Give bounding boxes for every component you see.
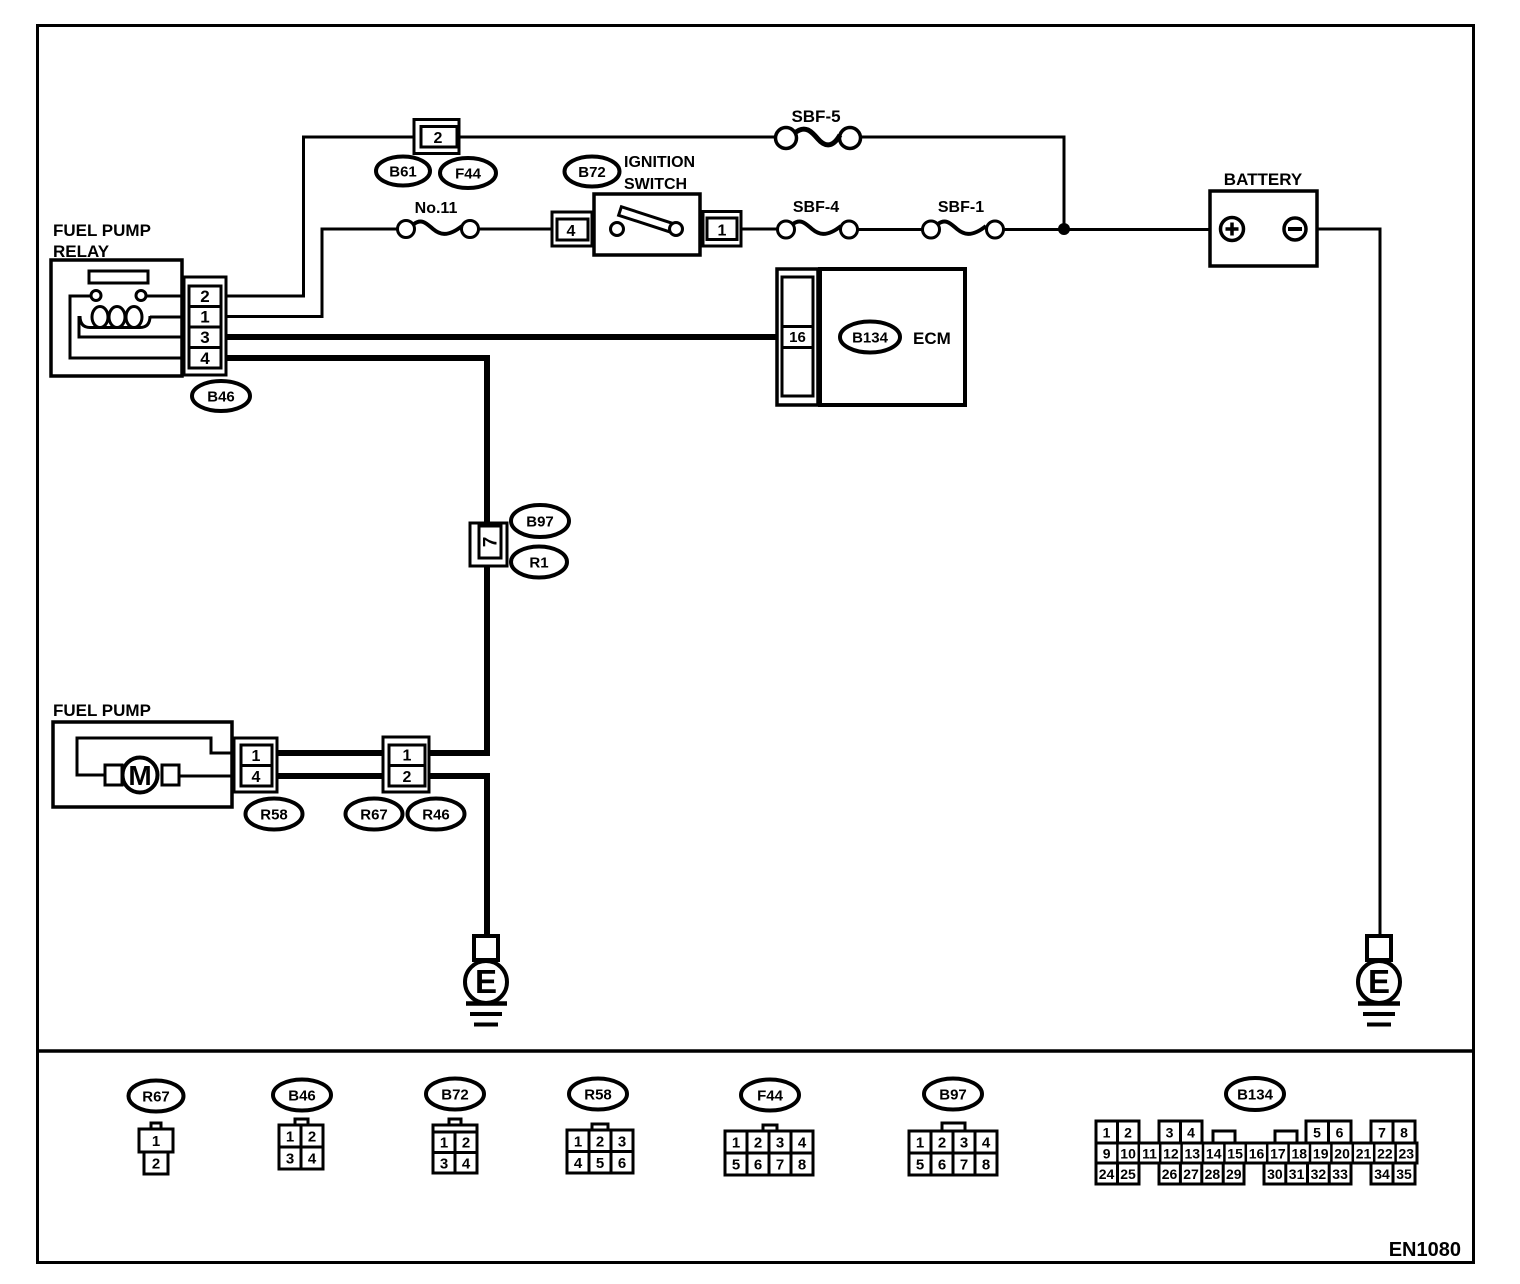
svg-text:2: 2 — [596, 1134, 604, 1151]
svg-text:24: 24 — [1099, 1166, 1115, 1182]
svg-text:32: 32 — [1311, 1166, 1327, 1182]
relay contact wiring — [146, 295, 185, 298]
svg-text:BATTERY: BATTERY — [1224, 170, 1303, 189]
wire relay pin1 to No.11 to ignition switch to SBF-4 SBF-1 to battery — [224, 229, 1211, 317]
svg-text:15: 15 — [1227, 1146, 1243, 1162]
ECM box — [820, 269, 965, 405]
svg-text:17: 17 — [1270, 1146, 1286, 1162]
panel connector R67 — [129, 1081, 184, 1112]
inline connector 7 — [470, 523, 507, 566]
svg-text:R58: R58 — [260, 807, 288, 824]
svg-text:14: 14 — [1206, 1146, 1222, 1162]
svg-text:26: 26 — [1162, 1166, 1178, 1182]
svg-text:19: 19 — [1313, 1146, 1329, 1162]
svg-text:30: 30 — [1267, 1166, 1283, 1182]
svg-text:B46: B46 — [288, 1088, 316, 1105]
svg-text:6: 6 — [938, 1157, 946, 1174]
fuel pump relay box — [51, 260, 182, 376]
svg-text:3: 3 — [960, 1135, 968, 1152]
svg-text:1: 1 — [152, 1133, 160, 1150]
panel connector F44 — [741, 1080, 799, 1111]
svg-text:35: 35 — [1396, 1166, 1412, 1182]
wire R58 pin4 to R67 pin2 — [276, 773, 385, 779]
svg-text:10: 10 — [1120, 1146, 1136, 1162]
svg-text:1: 1 — [718, 223, 727, 240]
connector label B134 in ECM — [840, 322, 900, 353]
svg-text:B97: B97 — [526, 514, 554, 531]
svg-text:18: 18 — [1292, 1146, 1308, 1162]
svg-text:E: E — [475, 963, 497, 1000]
ignition switch connector 4 — [552, 212, 592, 246]
svg-text:SBF-4: SBF-4 — [793, 199, 839, 216]
wire relay pin3 to ECM pin16 — [224, 334, 780, 340]
ground left — [474, 936, 498, 960]
svg-text:4: 4 — [982, 1135, 991, 1152]
svg-text:7: 7 — [1378, 1125, 1386, 1141]
svg-text:SBF-1: SBF-1 — [938, 199, 984, 216]
svg-text:23: 23 — [1399, 1146, 1415, 1162]
svg-text:R1: R1 — [529, 555, 548, 572]
svg-text:22: 22 — [1377, 1146, 1393, 1162]
svg-text:33: 33 — [1332, 1166, 1348, 1182]
connector label B61 — [376, 157, 430, 186]
connector R67/R46 pins 1 2 — [383, 737, 429, 792]
svg-text:2: 2 — [152, 1156, 160, 1173]
svg-text:1: 1 — [1103, 1125, 1111, 1141]
svg-text:7: 7 — [481, 537, 502, 548]
svg-text:7: 7 — [960, 1157, 968, 1174]
svg-text:5: 5 — [1313, 1125, 1321, 1141]
svg-text:R46: R46 — [422, 807, 450, 824]
svg-text:B46: B46 — [207, 389, 235, 406]
svg-text:B134: B134 — [1237, 1087, 1274, 1104]
svg-text:2: 2 — [1124, 1125, 1132, 1141]
svg-text:3: 3 — [286, 1151, 294, 1168]
svg-text:8: 8 — [982, 1157, 990, 1174]
svg-text:1: 1 — [574, 1134, 582, 1151]
svg-text:FUEL PUMP: FUEL PUMP — [53, 221, 151, 240]
svg-text:20: 20 — [1334, 1146, 1350, 1162]
ignition switch box — [594, 194, 700, 255]
connector label R58 — [246, 799, 303, 830]
svg-text:B72: B72 — [578, 164, 606, 181]
svg-text:EN1080: EN1080 — [1389, 1239, 1461, 1261]
svg-text:2: 2 — [403, 769, 412, 786]
svg-text:8: 8 — [1400, 1125, 1408, 1141]
ignition switch connector 1 — [703, 212, 741, 247]
svg-text:R67: R67 — [360, 807, 388, 824]
svg-text:28: 28 — [1205, 1166, 1221, 1182]
ground right — [1367, 936, 1391, 960]
connector label B46 — [192, 381, 250, 411]
svg-text:1: 1 — [200, 308, 209, 327]
svg-text:16: 16 — [789, 329, 806, 346]
connector label R46 — [408, 799, 465, 830]
svg-text:1: 1 — [252, 748, 261, 765]
svg-text:31: 31 — [1289, 1166, 1305, 1182]
connector label R1 — [511, 547, 567, 578]
svg-text:FUEL PUMP: FUEL PUMP — [53, 701, 151, 720]
svg-text:2: 2 — [308, 1129, 316, 1146]
svg-text:16: 16 — [1249, 1146, 1265, 1162]
svg-text:M: M — [128, 760, 151, 791]
svg-text:3: 3 — [776, 1135, 784, 1152]
panel connector B134 — [1226, 1078, 1284, 1110]
svg-text:4: 4 — [798, 1135, 807, 1152]
svg-text:ECM: ECM — [913, 329, 951, 348]
svg-text:4: 4 — [308, 1151, 317, 1168]
junction node battery feed — [1058, 223, 1070, 235]
wire R58 pin1 to R67 pin1 — [276, 750, 385, 756]
svg-text:SBF-5: SBF-5 — [791, 107, 840, 126]
svg-text:4: 4 — [1187, 1125, 1195, 1141]
svg-text:29: 29 — [1226, 1166, 1242, 1182]
svg-text:6: 6 — [1336, 1125, 1344, 1141]
svg-text:R58: R58 — [584, 1087, 612, 1104]
wire relay pin2 to connector 2 to SBF-5 to junction — [224, 137, 1064, 296]
svg-text:13: 13 — [1185, 1146, 1201, 1162]
svg-text:2: 2 — [754, 1135, 762, 1152]
svg-text:1: 1 — [286, 1129, 294, 1146]
ECM pin strip cells pin 16 — [782, 277, 813, 396]
svg-text:3: 3 — [440, 1156, 448, 1173]
relay contact circles — [91, 291, 101, 301]
svg-text:B72: B72 — [441, 1087, 469, 1104]
svg-text:4: 4 — [462, 1156, 471, 1173]
svg-text:5: 5 — [732, 1157, 740, 1174]
connector label F44 — [440, 158, 496, 188]
svg-text:11: 11 — [1142, 1146, 1157, 1162]
connector label R67 — [346, 799, 403, 830]
svg-text:27: 27 — [1183, 1166, 1199, 1182]
connector label B72 — [565, 157, 620, 187]
svg-text:1: 1 — [440, 1135, 448, 1152]
svg-text:7: 7 — [776, 1157, 784, 1174]
svg-text:5: 5 — [596, 1155, 604, 1172]
svg-text:2: 2 — [462, 1135, 470, 1152]
svg-text:2: 2 — [434, 130, 443, 147]
fuel pump box — [53, 722, 232, 807]
svg-text:25: 25 — [1120, 1166, 1136, 1182]
ignition switch contacts — [611, 223, 624, 236]
svg-text:RELAY: RELAY — [53, 242, 110, 261]
relay connector strip B46 pins 2 1 3 4 — [184, 277, 226, 375]
svg-text:2: 2 — [200, 287, 209, 306]
relay top bar — [89, 271, 148, 283]
svg-text:2: 2 — [938, 1135, 946, 1152]
svg-text:21: 21 — [1356, 1146, 1372, 1162]
svg-text:9: 9 — [1103, 1146, 1111, 1162]
svg-text:5: 5 — [916, 1157, 924, 1174]
fuel pump internal wiring — [77, 738, 240, 775]
wire battery minus to right ground — [1316, 229, 1380, 937]
svg-text:6: 6 — [754, 1157, 762, 1174]
svg-text:4: 4 — [200, 349, 210, 368]
svg-text:8: 8 — [798, 1157, 806, 1174]
wire connector 7 down to R46 pin1 — [429, 565, 487, 753]
inline connector 2 (B61/F44) — [414, 120, 459, 154]
svg-text:B97: B97 — [939, 1087, 967, 1104]
svg-text:3: 3 — [1166, 1125, 1174, 1141]
panel connector B72 — [426, 1079, 484, 1110]
relay coil — [79, 316, 185, 337]
ECM connector strip — [777, 269, 818, 405]
panel connector B46 — [273, 1080, 331, 1111]
svg-text:4: 4 — [567, 223, 576, 240]
connector label B97 — [511, 505, 569, 537]
svg-text:IGNITION: IGNITION — [624, 154, 695, 171]
svg-text:No.11: No.11 — [415, 200, 458, 217]
svg-text:B61: B61 — [389, 164, 417, 181]
panel connector B97 — [924, 1079, 982, 1110]
battery plus terminal — [1221, 218, 1244, 241]
battery minus terminal — [1284, 218, 1306, 240]
svg-text:3: 3 — [200, 328, 209, 347]
svg-text:SWITCH: SWITCH — [624, 176, 687, 193]
svg-text:6: 6 — [618, 1155, 626, 1172]
svg-text:E: E — [1368, 963, 1390, 1000]
svg-text:F44: F44 — [455, 166, 482, 183]
fuel pump motor M — [105, 765, 122, 785]
svg-text:1: 1 — [403, 748, 412, 765]
svg-text:1: 1 — [732, 1135, 740, 1152]
wire R46 pin2 down to left ground — [429, 776, 487, 937]
svg-text:4: 4 — [252, 769, 261, 786]
panel connector R58 — [569, 1079, 627, 1110]
svg-text:B134: B134 — [852, 330, 889, 347]
connector R58 pins 1 4 — [234, 738, 277, 792]
svg-text:3: 3 — [618, 1134, 626, 1151]
svg-text:1: 1 — [916, 1135, 924, 1152]
svg-text:34: 34 — [1374, 1166, 1390, 1182]
svg-text:4: 4 — [574, 1155, 583, 1172]
ignition switch lever — [619, 207, 681, 235]
svg-text:F44: F44 — [757, 1088, 784, 1105]
wire relay pin4 down to connector 7 — [224, 358, 487, 523]
svg-text:R67: R67 — [142, 1089, 170, 1106]
svg-text:12: 12 — [1163, 1146, 1179, 1162]
